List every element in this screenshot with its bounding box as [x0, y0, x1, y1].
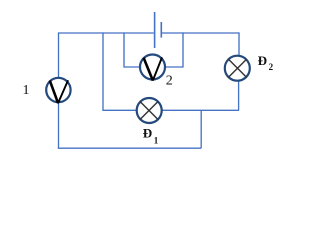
svg-text:1: 1: [23, 83, 30, 98]
svg-text:Đ: Đ: [258, 53, 267, 68]
svg-text:2: 2: [269, 62, 274, 72]
svg-text:Đ: Đ: [143, 126, 152, 141]
svg-text:2: 2: [166, 73, 173, 88]
svg-text:1: 1: [154, 135, 159, 145]
